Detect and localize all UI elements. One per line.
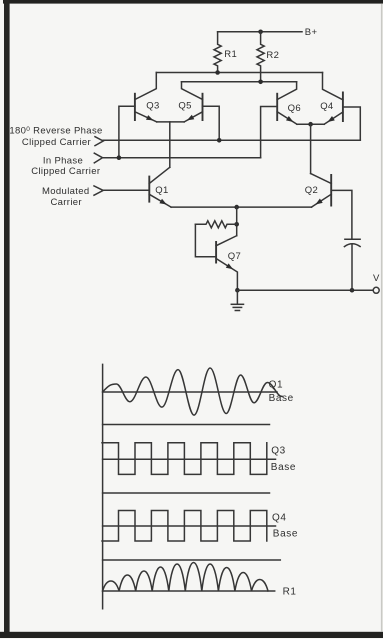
- input chevron in-phase: [94, 153, 102, 163]
- waveform R1 baseline: [103, 590, 275, 592]
- svg-text:Clipped Carrier: Clipped Carrier: [22, 137, 91, 148]
- svg-text:V: V: [373, 273, 380, 284]
- output terminal V: [373, 287, 379, 293]
- svg-text:In Phase: In Phase: [43, 156, 83, 167]
- node dot R2 bottom junction: [258, 80, 263, 85]
- transistor Q7: [215, 241, 217, 264]
- transistor Q5: [202, 93, 204, 121]
- svg-text:Modulated: Modulated: [42, 186, 90, 197]
- resistor R2: [257, 32, 264, 82]
- svg-text:R2: R2: [266, 50, 279, 61]
- wire emitters down to Q2 collector: [310, 124, 312, 173]
- svg-text:Clipped Carrier: Clipped Carrier: [31, 166, 100, 177]
- node dot emitter line junction: [234, 205, 239, 210]
- ground: [236, 290, 238, 303]
- input chevron 180-deg: [95, 137, 103, 146]
- frame right faint edge: [381, 4, 383, 632]
- capacitor C1: [345, 238, 360, 240]
- wire modulated carrier line: [103, 189, 149, 191]
- node dot Q7 feedback resistor junction: [234, 222, 239, 227]
- node dot R2 top junction: [258, 30, 263, 35]
- node dot R1 bottom junction: [215, 70, 220, 75]
- svg-text:B+: B+: [305, 27, 318, 38]
- wire emitters down to Q1 collector: [169, 122, 171, 167]
- waveform Q1 base sine: [103, 368, 282, 415]
- wire Q3/Q5 common emitter: [157, 121, 185, 123]
- wire Q4 base to 180-deg line: [343, 107, 360, 140]
- node dot capacitor junction: [350, 288, 355, 293]
- waveform axis: [102, 364, 104, 608]
- wire Q1/Q2 common emitter line: [171, 206, 311, 208]
- transistor Q1: [148, 176, 150, 203]
- frame top bar: [3, 0, 383, 4]
- svg-text:Q1: Q1: [269, 380, 284, 391]
- wire rail A (R1 bottom, Q3/Q4 collectors): [156, 72, 322, 74]
- transistor Q2: [330, 174, 332, 207]
- resistor R1: [214, 32, 221, 73]
- svg-text:Carrier: Carrier: [50, 197, 81, 208]
- svg-text:Q4: Q4: [320, 101, 333, 112]
- resistor Q7 feedback: [195, 221, 236, 228]
- wire output line: [237, 289, 373, 291]
- svg-text:Q6: Q6: [288, 103, 301, 114]
- svg-text:Q5: Q5: [178, 100, 191, 111]
- wire 180-deg reverse phase carrier line: [103, 139, 360, 141]
- svg-text:Q3: Q3: [146, 100, 159, 111]
- transistor Q4: [342, 92, 344, 123]
- frame bottom bar: [0, 632, 383, 638]
- node dot Q6/Q4 emitter junction: [308, 122, 313, 127]
- svg-text:R1: R1: [283, 587, 297, 598]
- transistor Q3: [134, 93, 136, 121]
- svg-text:Base: Base: [273, 528, 298, 539]
- node dot Q5 base tap: [217, 138, 222, 143]
- wire B+ top rail: [218, 31, 302, 33]
- wire Q3 base to In-Phase line: [119, 106, 135, 158]
- input chevron modulated: [94, 186, 103, 195]
- svg-text:Q4: Q4: [272, 513, 287, 524]
- wire rail B (R2 bottom, Q5/Q6 collectors): [182, 81, 297, 83]
- svg-text:Base: Base: [271, 462, 296, 473]
- frame left bar: [4, 0, 10, 638]
- svg-text:Q3: Q3: [271, 446, 286, 457]
- wire in-phase carrier line: [102, 157, 260, 159]
- wire Q2 base to coupling cap: [331, 190, 352, 239]
- svg-text:Q7: Q7: [228, 251, 241, 262]
- wire emitter junction down to Q7 collector: [236, 207, 238, 236]
- waveform Q3 base square: [102, 443, 267, 475]
- node dot Q3 base tap: [117, 155, 122, 160]
- waveform Q4 base center line: [103, 525, 276, 527]
- wire feedback loop to Q7 base: [195, 224, 216, 256]
- wire Q5 base to 180-deg line: [203, 106, 220, 140]
- svg-text:Q2: Q2: [305, 185, 318, 196]
- separator 2: [103, 492, 270, 494]
- svg-text:1800 Reverse Phase: 1800 Reverse Phase: [9, 126, 102, 137]
- separator 3: [103, 559, 281, 561]
- waveform Q1 base center line: [103, 391, 277, 393]
- transistor Q6: [276, 93, 278, 121]
- wire Q6/Q4 common emitter: [297, 123, 324, 125]
- svg-text:R1: R1: [224, 49, 237, 60]
- svg-text:Q1: Q1: [155, 185, 168, 196]
- waveform Q3 base center line: [103, 458, 276, 460]
- waveform Q4 base square: [102, 511, 267, 542]
- wire Q6 base to In-Phase line: [261, 107, 278, 158]
- waveform R1 humps: [103, 563, 268, 592]
- node dot ground junction: [235, 288, 240, 293]
- separator 1: [103, 424, 270, 426]
- svg-text:Base: Base: [269, 393, 294, 404]
